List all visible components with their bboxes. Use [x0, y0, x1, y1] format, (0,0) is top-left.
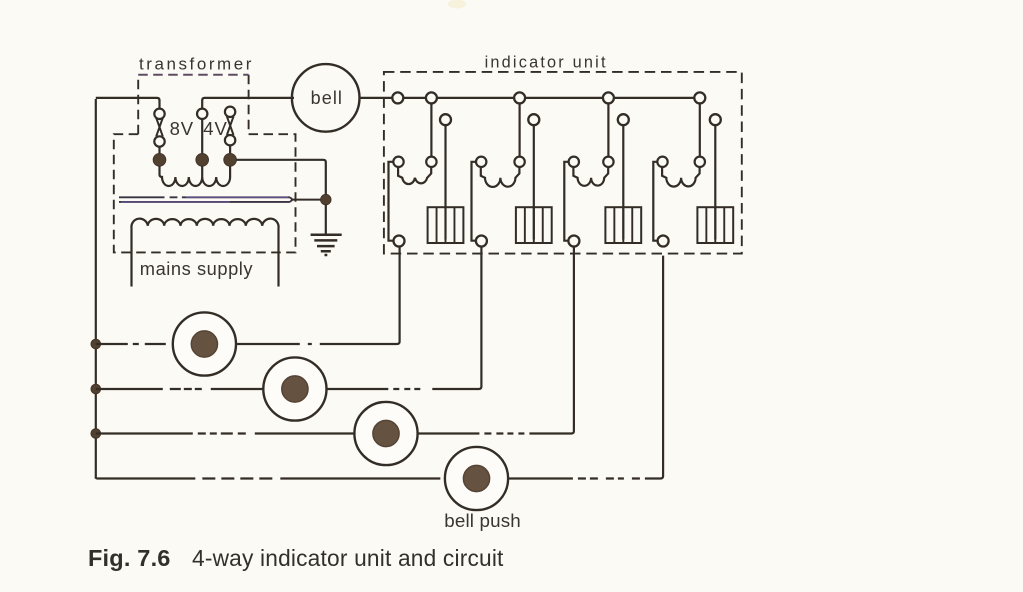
wire 12V tap to core junction	[236, 160, 326, 195]
wire bell to indicator unit	[360, 97, 393, 99]
wire flag hanger 3	[622, 125, 624, 239]
scan smudge	[448, 0, 466, 9]
bottom terminal B4	[658, 236, 669, 247]
wire bus into bell	[292, 97, 294, 99]
coil left terminal 1	[393, 157, 403, 167]
bottom terminal B2	[476, 236, 487, 247]
flag terminal F1	[440, 114, 451, 125]
bottom terminal B3	[568, 236, 579, 247]
coil left terminal 2	[476, 157, 486, 167]
primary winding with mains leads	[131, 219, 278, 287]
secondary winding	[160, 166, 231, 186]
transformer dashed box top	[138, 74, 248, 76]
transformer core bar	[119, 197, 293, 202]
wire push row 3 right	[417, 246, 574, 433]
wire bus to coil 4	[699, 103, 701, 156]
wire bus to coil 3	[607, 103, 609, 156]
wire push row 4 right	[508, 246, 663, 478]
flag indicator box 2	[516, 207, 552, 243]
wire left vertical riser	[95, 99, 97, 479]
core purple scan tint	[121, 197, 288, 202]
wire bus segment 2	[437, 97, 514, 99]
coil right terminal 3	[603, 157, 613, 167]
wire top bus bell to 4V link	[202, 98, 292, 109]
wire coil to bottom terminal 3	[564, 162, 569, 241]
wire L3 to tap dot	[229, 145, 231, 154]
svg-text:bell push: bell push	[444, 510, 521, 531]
flag indicator box 1	[428, 207, 464, 243]
bell push P4 body	[445, 447, 508, 510]
flag terminal F4	[710, 114, 721, 125]
bus terminal T2	[426, 92, 437, 103]
bell push P2 button	[282, 376, 308, 402]
coil left terminal 4	[657, 157, 667, 167]
coil right terminal 1	[426, 157, 436, 167]
svg-text:Fig. 7.6: Fig. 7.6	[88, 545, 171, 571]
bell push P2 body	[263, 357, 326, 420]
coil body 3	[573, 167, 608, 186]
wire bus segment 4	[614, 97, 694, 99]
bell push P3 body	[354, 402, 417, 465]
bell push P1 body	[173, 312, 236, 375]
tap dot 4V	[196, 154, 209, 167]
coil right terminal 2	[514, 157, 524, 167]
tap dot 8V	[153, 154, 166, 167]
svg-text:4V: 4V	[203, 118, 227, 139]
flag box bars 1	[437, 207, 455, 243]
link L3 bottom terminal	[225, 135, 235, 145]
bell push P4 button	[463, 465, 489, 491]
wire push row 1 right	[236, 246, 400, 344]
flag box bars 4	[706, 207, 724, 243]
indicator unit dashed box	[384, 72, 742, 254]
wire push row 2 right	[326, 246, 481, 389]
bell push P1 button	[191, 331, 217, 357]
coil right terminal 4	[695, 157, 705, 167]
flag box bars 2	[525, 207, 543, 243]
link L1 top terminal	[154, 109, 164, 119]
junction dot core-earth	[321, 194, 331, 204]
wire push row 4 left	[96, 477, 445, 478]
flag box bars 3	[614, 207, 632, 243]
flag terminal F3	[618, 114, 629, 125]
link L3 crossed link	[227, 116, 234, 135]
coil left terminal 3	[569, 157, 579, 167]
mains-supply dashed box	[114, 134, 296, 252]
wire L2 to tap dot	[201, 119, 203, 154]
wire core to earth junction	[292, 199, 321, 201]
wire bus to coil 1	[430, 103, 432, 156]
junction dot row 1	[91, 339, 101, 349]
coil body 1	[398, 167, 431, 184]
wire push row 1 left	[96, 343, 174, 345]
wire flag hanger 2	[533, 125, 535, 239]
wire flag hanger 1	[444, 125, 446, 239]
wire top bus to 8V link	[96, 98, 160, 109]
wire 4V tap into winding	[201, 166, 203, 177]
bell circle	[292, 64, 360, 132]
wire bus segment 1	[403, 97, 426, 99]
wire coil to bottom terminal 2	[472, 162, 477, 241]
junction dot row 2	[91, 384, 101, 394]
svg-text:4-way indicator unit and circu: 4-way indicator unit and circuit	[192, 545, 504, 571]
wire flag hanger 4	[714, 125, 716, 239]
link L2 top terminal	[197, 109, 207, 119]
svg-text:bell: bell	[311, 88, 343, 108]
wire bus to coil 2	[518, 103, 520, 156]
wire L1 to tap dot	[158, 146, 160, 154]
bottom terminal B1	[394, 236, 405, 247]
wire coil to bottom terminal 1	[389, 162, 394, 241]
coil body 4	[662, 167, 700, 187]
link L3 top terminal	[225, 107, 235, 117]
flag indicator box 3	[605, 207, 641, 243]
link L1 bottom terminal	[154, 136, 164, 146]
earth ground symbol	[311, 235, 342, 255]
transformer dashed box sides	[138, 75, 248, 134]
wire junction to earth	[325, 205, 327, 234]
junction dot row 3	[91, 429, 101, 439]
svg-text:transformer: transformer	[139, 54, 254, 73]
wire bus segment 3	[525, 97, 603, 99]
svg-text:indicator unit: indicator unit	[485, 53, 608, 71]
bus terminal T3	[514, 92, 525, 103]
bus terminal T4	[603, 92, 614, 103]
bell push P3 button	[373, 420, 399, 446]
wire coil to bottom terminal 4	[653, 162, 658, 241]
bus terminal T1	[392, 92, 403, 103]
svg-text:8V: 8V	[170, 118, 194, 139]
flag indicator box 4	[697, 207, 733, 243]
tap dot spare	[224, 154, 237, 167]
svg-text:mains supply: mains supply	[140, 258, 254, 279]
wire push row 3 left	[96, 432, 355, 434]
coil body 2	[481, 167, 520, 187]
flag terminal F2	[528, 114, 539, 125]
wire push row 2 left	[96, 388, 264, 390]
link L1 crossed link	[156, 118, 163, 137]
bus terminal T5	[694, 92, 705, 103]
